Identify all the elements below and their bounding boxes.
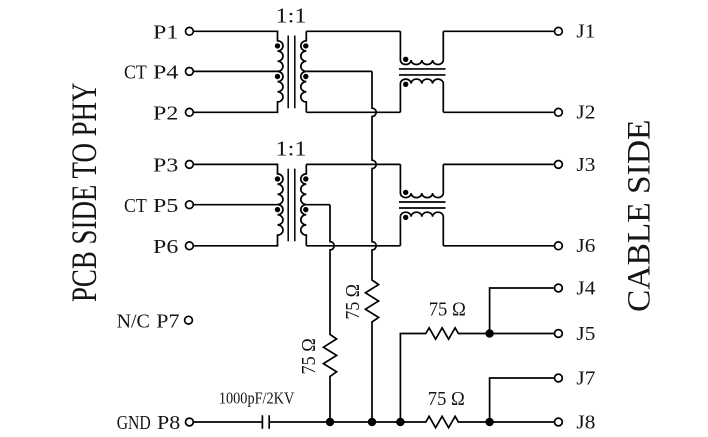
resistor R3 label 75 Ohm [429, 300, 466, 321]
connector J7 [555, 367, 596, 389]
transformer T1 secondary winding [301, 31, 307, 112]
svg-text:P6: P6 [153, 236, 178, 258]
label CABLE SIDE [621, 120, 657, 312]
svg-text:PCB SIDE TO PHY: PCB SIDE TO PHY [64, 83, 104, 302]
svg-text:P2: P2 [153, 103, 178, 125]
T1 secondary polarity dot upper [303, 43, 308, 48]
svg-text:N/C: N/C [117, 310, 150, 332]
T2 secondary polarity dot upper [303, 176, 308, 181]
wire L2 to J3 [443, 163, 554, 165]
T2 core lines [288, 169, 295, 242]
svg-text:J2: J2 [576, 102, 595, 124]
capacitor C1 plates [262, 415, 269, 429]
capacitor C1 label 1000pF/2KV [219, 389, 295, 408]
svg-text:J6: J6 [576, 235, 595, 257]
svg-text:P1: P1 [153, 22, 178, 44]
L2 core lines [399, 202, 446, 208]
T2 primary polarity dot upper [275, 176, 280, 181]
svg-text:J7: J7 [576, 367, 595, 389]
svg-text:P3: P3 [153, 155, 178, 177]
svg-text:1000pF/2KV: 1000pF/2KV [219, 389, 295, 408]
T1 primary polarity dot lower [275, 74, 280, 79]
pin P1 [153, 22, 193, 44]
svg-text:75 Ω: 75 Ω [429, 300, 466, 321]
connector J3 [555, 154, 596, 176]
pin P3 [153, 155, 193, 177]
svg-text:J3: J3 [576, 154, 595, 176]
wire T1 CT vertical with hops and resistor R2 [365, 71, 378, 422]
pin P4 (CT) [124, 62, 193, 84]
wire T2 CT vertical with hop and resistor R1 [323, 205, 336, 422]
common-mode choke L1 top winding [400, 31, 443, 64]
svg-text:J4: J4 [576, 277, 595, 299]
wire T1 secondary top to choke L1 [306, 30, 400, 32]
T1 core lines [288, 36, 295, 109]
label 1:1 (transformer T2 ratio) [276, 137, 307, 161]
svg-text:1:1: 1:1 [276, 137, 307, 161]
wire T2 secondary top to choke L2 [306, 163, 400, 165]
connector J8 [555, 411, 596, 433]
svg-text:GND: GND [117, 412, 151, 434]
wire L1 to J2 [443, 111, 554, 113]
label PCB SIDE TO PHY [64, 83, 104, 302]
T1 secondary polarity dot lower [303, 74, 308, 79]
junction dot J4/J5 node [485, 329, 493, 337]
wire J4/J5 termination branch with resistor R3 [400, 328, 489, 422]
svg-text:75 Ω: 75 Ω [299, 338, 320, 374]
wire P5 center tap [194, 204, 278, 206]
L1 top winding dot [403, 57, 408, 62]
svg-text:75 Ω: 75 Ω [343, 284, 364, 320]
wire T1 secondary center tap [306, 70, 372, 72]
transformer T1 primary winding (with P1/P4/P2 wires) [194, 31, 283, 112]
T1 primary polarity dot upper [275, 43, 280, 48]
junction dot R1/GND rail [326, 418, 334, 426]
wire to J5 [490, 333, 554, 335]
svg-text:75 Ω: 75 Ω [428, 389, 465, 410]
T2 secondary polarity dot lower [303, 207, 308, 212]
connector J5 [555, 323, 596, 345]
pin P5 (CT) [124, 195, 193, 217]
GND rail wire with resistor R4 [269, 416, 554, 427]
pin P7 (N/C) [117, 310, 193, 332]
resistor R2 label 75 Ohm [343, 284, 364, 320]
svg-text:1:1: 1:1 [276, 3, 307, 27]
label 1:1 (transformer T1 ratio) [276, 3, 307, 27]
junction dot J7/J8 node [485, 418, 493, 426]
resistor R1 label 75 Ohm [299, 338, 320, 374]
transformer T2 secondary winding [301, 164, 307, 245]
connector J4 [555, 277, 596, 299]
pin P6 [153, 236, 193, 258]
svg-text:P8: P8 [157, 412, 180, 434]
junction dot J4J5 branch/GND rail [396, 418, 404, 426]
junction dot R2/GND rail [368, 418, 376, 426]
connector J2 [555, 102, 596, 124]
L2 bottom winding dot [403, 215, 408, 220]
connector J6 [555, 235, 596, 257]
wire to J4 [490, 288, 554, 334]
transformer T2 primary winding (with P3/P5/P6 wires) [194, 164, 283, 245]
svg-text:CT: CT [124, 195, 147, 217]
svg-text:P4: P4 [153, 62, 178, 84]
svg-text:P5: P5 [153, 195, 178, 217]
svg-text:J5: J5 [576, 323, 595, 345]
common-mode choke L1 bottom winding [400, 79, 443, 112]
wire T2 secondary bottom to choke L2 [306, 245, 400, 247]
pin P2 [153, 103, 193, 125]
svg-text:J1: J1 [576, 21, 595, 43]
resistor R4 label 75 Ohm [428, 389, 465, 410]
wire L2 to J6 [443, 245, 554, 247]
L1 core lines [399, 69, 446, 75]
svg-text:P7: P7 [156, 310, 179, 332]
L1 bottom winding dot [403, 82, 408, 87]
wire T2 secondary center tap [306, 204, 330, 206]
common-mode choke L2 top winding [400, 164, 443, 197]
wire P4 center tap [194, 70, 278, 72]
common-mode choke L2 bottom winding [400, 212, 443, 246]
T2 primary polarity dot lower [275, 207, 280, 212]
svg-text:CT: CT [124, 62, 147, 84]
wire T1 secondary bottom to choke L1 [306, 111, 400, 113]
L2 top winding dot [403, 190, 408, 195]
svg-text:CABLE SIDE: CABLE SIDE [621, 120, 657, 312]
wire L1 to J1 [443, 30, 554, 32]
pin P8 (GND) [117, 412, 194, 434]
connector J1 [555, 21, 596, 43]
wire P8 to capacitor C1 [194, 421, 262, 423]
svg-text:J8: J8 [576, 411, 595, 433]
wire to J7 [490, 378, 554, 422]
